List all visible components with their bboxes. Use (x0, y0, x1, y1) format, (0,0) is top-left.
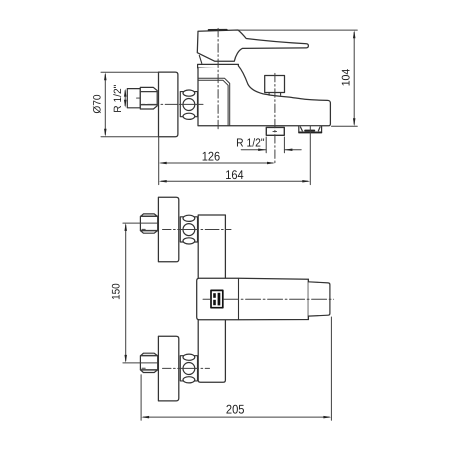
spout mouth thick bottom (299, 131, 321, 133)
block seam lines (238, 278, 240, 319)
hex nut facet lines (140, 92, 157, 105)
brand logo plate (211, 290, 223, 307)
lever handle outline (197, 30, 308, 61)
top wall flange (front) (158, 197, 178, 262)
block horizontal axis (203, 298, 211, 300)
svg-text:104: 104 (341, 69, 353, 87)
tube/nose seam (307, 279, 309, 319)
top hex nut (front) (140, 214, 157, 233)
bottom union inlet axis (163, 367, 210, 369)
diverter knob on spout (265, 76, 285, 93)
bottom union pipe axis tick inside nut (142, 367, 145, 369)
spout mouth centerline extension (309, 126, 311, 184)
dim 126 (161, 162, 273, 164)
wall flange (side view) (159, 72, 178, 137)
spout nose (308, 282, 330, 316)
flange left extension line (158, 137, 160, 185)
pipe axis short line (137, 97, 158, 99)
body front-face panel inner edge (198, 80, 228, 125)
dim 104 (239, 30, 358, 126)
spout mouth inner bar (305, 130, 314, 132)
dim 205 line (143, 416, 329, 418)
dim 150 line (125, 225, 127, 361)
shower outlet connector (bottom of body) (266, 127, 284, 135)
dim R 1/2 (wall pipe) (124, 91, 126, 106)
diverter knob neck stubs (269, 93, 281, 96)
bottom eccentric union ellipses (180, 356, 197, 381)
bottom wall flange (front) (158, 336, 178, 401)
svg-text:126: 126 (202, 149, 220, 163)
mixer block + spout tube + nose (197, 278, 309, 320)
diverter/outlet vertical centerline (274, 73, 276, 163)
svg-text:R 1/2": R 1/2" (112, 84, 124, 112)
top union pipe axis tick inside nut (142, 228, 145, 230)
dim Ø70 (101, 72, 158, 137)
spout mouth inner right wedge (318, 127, 320, 131)
spout mouth / aerator (299, 126, 322, 132)
svg-text:Ø70: Ø70 (91, 94, 103, 113)
supply pipe (side view) (127, 89, 140, 108)
dim 164 (161, 180, 308, 182)
inlet horizontal axis (side) (142, 103, 203, 105)
eccentric union ellipse stack (side view) (180, 92, 197, 117)
dim R 1/2 (outlet) extension lines (266, 137, 284, 153)
svg-text:R 1/2": R 1/2" (236, 136, 264, 149)
lever top thick bar (209, 29, 227, 31)
lever base left small edge (199, 55, 202, 63)
svg-text:150: 150 (110, 283, 122, 300)
bottom hex nut (front) (140, 353, 157, 372)
dim R 1/2 (outlet) arrows (241, 149, 301, 151)
body column (198, 215, 225, 382)
spout mouth inner left wedge (300, 127, 302, 131)
bonnet cap under handle (198, 64, 239, 68)
body front-face panel outer edge (198, 78, 229, 125)
svg-text:205: 205 (226, 403, 245, 417)
handle vertical centerline (217, 28, 219, 130)
hex nut (side view) (140, 87, 157, 109)
outlet center tick (273, 130, 277, 132)
dimension texts (side view) (91, 69, 352, 182)
svg-text:164: 164 (225, 168, 243, 182)
top union inlet axis (163, 229, 232, 231)
faucet body outline with spout curve (198, 66, 330, 126)
dimension texts (front view) (110, 283, 244, 416)
top eccentric union ellipses (180, 217, 197, 242)
dim 150 extension lines (123, 223, 158, 363)
dim 205 extension lines (141, 317, 331, 420)
